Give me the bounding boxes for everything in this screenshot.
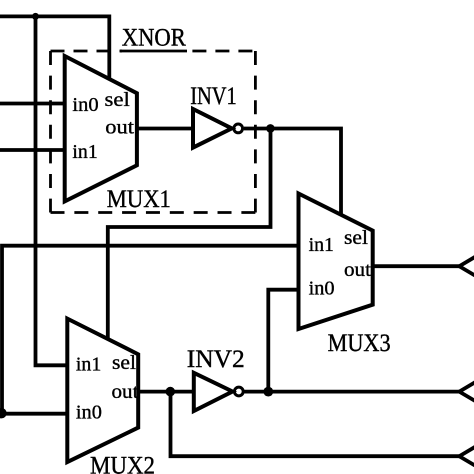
- svg-text:in1: in1: [309, 234, 334, 256]
- wire node E up to MUX3 in0: [268, 290, 298, 392]
- output arrowhead 3 (bottom net): [459, 446, 474, 466]
- svg-text:in1: in1: [72, 141, 97, 163]
- XNOR dashed boundary box bottom edge: [51, 211, 256, 214]
- wire MUX2 out to INV2: [138, 390, 194, 394]
- wire MUX3 out: [373, 264, 460, 268]
- svg-text:sel: sel: [105, 89, 131, 111]
- svg-text:in0: in0: [309, 278, 335, 300]
- mux MUX2 body: [67, 319, 138, 463]
- node E junction on INV2 output: [263, 387, 273, 397]
- mux MUX1 body: [65, 56, 137, 201]
- wire from node A down to MUX2 in1: [36, 15, 68, 365]
- wire MUX1 in0 input: [0, 102, 65, 106]
- svg-text:in0: in0: [76, 402, 102, 424]
- mux MUX3 body: [299, 194, 373, 330]
- svg-text:XNOR: XNOR: [122, 24, 186, 51]
- node A junction on top net: [32, 13, 39, 20]
- svg-text:MUX2: MUX2: [90, 452, 155, 474]
- svg-text:out: out: [344, 259, 371, 281]
- svg-text:INV2: INV2: [187, 346, 245, 373]
- wire INV2 output to right edge: [245, 390, 460, 394]
- XNOR dashed boundary box top edge: [51, 50, 123, 53]
- wire net to MUX3 in1: [2, 246, 299, 414]
- wire node B down and left to MUX2 sel: [108, 129, 271, 341]
- svg-text:MUX3: MUX3: [328, 330, 391, 357]
- node D junction on MUX2 output: [166, 387, 176, 397]
- inverter INV2 bubble: [234, 387, 243, 396]
- output arrowhead 1 (MUX3 out): [459, 256, 474, 276]
- svg-text:in1: in1: [76, 354, 101, 376]
- XNOR dashed boundary box right edge: [254, 51, 257, 213]
- wire node C to MUX2 in0: [2, 412, 67, 416]
- svg-text:out: out: [105, 117, 134, 139]
- node C junction at left edge: [0, 408, 7, 418]
- wire INV1 output to MUX3 sel: [244, 129, 341, 217]
- wire top input net: [0, 16, 109, 80]
- svg-text:sel: sel: [112, 352, 136, 374]
- inverter INV1 bubble: [234, 124, 243, 133]
- inverter INV2 triangle: [194, 373, 233, 411]
- wire MUX1 in1 input: [0, 148, 65, 152]
- svg-text:MUX1: MUX1: [107, 186, 171, 213]
- svg-text:in0: in0: [72, 94, 98, 116]
- inverter INV1 triangle: [193, 109, 232, 148]
- wire MUX1 out to INV1: [137, 127, 192, 131]
- output arrowhead 2 (INV2 out): [459, 382, 474, 402]
- svg-text:INV1: INV1: [190, 83, 237, 110]
- XNOR dashed boundary box left edge: [49, 51, 52, 213]
- node B junction on INV1 output: [266, 124, 275, 133]
- wire node D down to bottom output: [171, 392, 460, 457]
- svg-text:out: out: [112, 381, 139, 403]
- svg-text:sel: sel: [344, 227, 368, 249]
